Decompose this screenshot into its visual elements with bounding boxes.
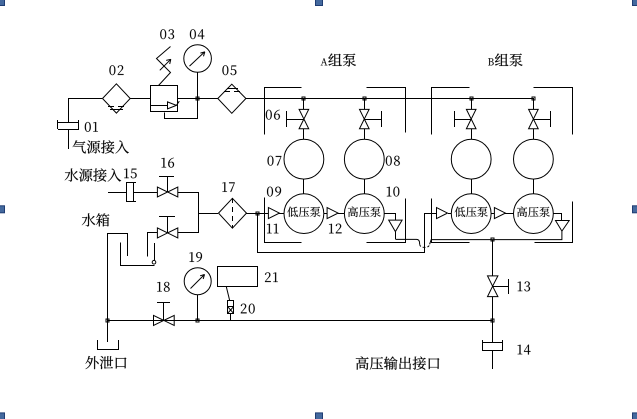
pump circle B2: [514, 194, 554, 234]
group A enclosure bracket bottom-left: [265, 198, 302, 243]
group A enclosure bracket bottom-right: [367, 199, 406, 243]
pressure regulator 03: [150, 47, 179, 112]
external drain port symbol: [98, 340, 119, 350]
group B enclosure bracket top-left: [432, 88, 470, 135]
output valve 13 (bowtie): [488, 276, 509, 297]
label external drain port: [86, 356, 127, 369]
pressure gauge 04: [184, 45, 212, 98]
outlet check valve B (down): [556, 221, 570, 232]
wire valve to air drive B1: [471, 129, 473, 139]
label water tank: [82, 213, 110, 226]
water tank (open top): [121, 243, 155, 266]
pump name text A1: [287, 207, 320, 217]
wire down to outlet check valve A: [395, 213, 397, 220]
regulator feedback pilot line: [165, 99, 198, 119]
water supply distribution line: [257, 252, 424, 254]
shutoff valve (bowtie) branch B1: [454, 109, 476, 128]
wire valve to air drive B2: [533, 129, 535, 139]
label pump group A: [321, 53, 356, 66]
wire down to outlet check valve B: [561, 213, 563, 220]
wire 21 to restrictor 20: [226, 286, 230, 300]
wire tank valve to riser: [178, 232, 198, 234]
wire header down to valve 13: [492, 240, 494, 276]
wire air line to filter 02: [68, 98, 102, 100]
group B supply riser: [424, 213, 426, 253]
selection handle middle-left: [0, 206, 5, 213]
group B enclosure bracket top-right: [534, 88, 573, 135]
label 21: [265, 272, 278, 282]
label 10: [387, 187, 400, 197]
header after hop: [430, 231, 562, 244]
shutoff valve (bowtie) branch A2: [360, 109, 382, 128]
wire check valve to pump B2: [505, 213, 514, 215]
water inlet valve 16 (bowtie): [157, 176, 177, 197]
label 19: [189, 252, 202, 262]
wire 01 to air line: [68, 98, 70, 122]
air drive motor circle B2: [514, 139, 554, 179]
junction dot air line branch A2: [363, 97, 366, 100]
selection handle top-middle: [316, 0, 323, 6]
junction dot regulator outlet: [196, 97, 199, 100]
pump circle B1: [451, 194, 491, 234]
junction dot drain port: [106, 319, 109, 322]
label pump group B: [488, 53, 522, 66]
tank suction pipe: [148, 233, 158, 257]
label 03: [160, 29, 174, 39]
label 09: [267, 187, 281, 197]
water inlet connector 15: [126, 182, 136, 202]
wire 20 to drain line: [230, 313, 232, 320]
shutoff valve (bowtie) branch B2: [529, 109, 551, 128]
pump circle A2: [344, 194, 384, 234]
wire 02 to regulator 03: [130, 98, 150, 100]
wire down to shutoff valve B2: [533, 98, 535, 109]
wire air drive to pump B2: [533, 179, 535, 194]
air lubricator 05: [218, 84, 246, 113]
label air source inlet: [73, 140, 129, 153]
check valve 12 (A interstage): [327, 208, 338, 219]
wire stub below 01: [68, 129, 70, 149]
label 16: [161, 158, 174, 168]
tank level indicator circle: [152, 260, 156, 264]
wire air drive to pump A1: [303, 179, 305, 194]
wire pump A1 to check valve 12: [324, 213, 327, 215]
wire water inlet: [108, 192, 126, 194]
label 02: [109, 65, 123, 75]
wire air drive to pump B1: [471, 179, 473, 194]
label 17: [222, 182, 234, 192]
label 14: [518, 345, 531, 355]
junction dot header to valve 13: [491, 238, 494, 241]
group B enclosure bracket bottom-left: [432, 199, 470, 243]
wire check valve to pump A2: [338, 213, 344, 215]
label high pressure output port: [356, 356, 440, 369]
drain port stub: [107, 320, 109, 342]
wire 15 to valve 16: [133, 192, 157, 194]
selection handle bottom-left: [0, 413, 5, 419]
air inlet connector 01: [58, 120, 80, 130]
header hop over riser (dashed arc): [420, 244, 430, 247]
wire pump A2 outlet: [384, 213, 395, 215]
wire pump B1 to interstage check valve: [491, 213, 494, 215]
junction dot water supply: [256, 212, 259, 215]
check valve B1 inlet: [437, 208, 448, 219]
wire into pump B1: [448, 213, 451, 215]
selection handle bottom-middle: [316, 413, 323, 419]
shutoff valve (bowtie) branch A1: [287, 109, 309, 128]
water filter 17: [219, 198, 247, 228]
junction dot output port: [491, 319, 494, 322]
label 20: [241, 304, 255, 314]
wire down to shutoff valve A2: [364, 98, 366, 109]
selection handle top-right: [633, 0, 637, 6]
label 15: [124, 169, 136, 179]
label 06: [266, 110, 280, 120]
water supply drop line: [257, 213, 259, 253]
wire valve 13 to drain junction: [492, 297, 494, 320]
wire valve to air drive A1: [303, 129, 305, 139]
pressure switch box 21: [218, 267, 258, 287]
wire 17 to junction: [246, 213, 268, 215]
group A enclosure bracket top-left: [265, 88, 302, 135]
wire down to shutoff valve A1: [303, 98, 305, 109]
air drive motor circle A1: [284, 139, 324, 179]
high pressure header A section: [395, 239, 419, 244]
selection handle bottom-right: [633, 413, 637, 419]
wire 03 to lubricator 05: [178, 98, 218, 100]
label 05: [222, 65, 236, 75]
label 08: [386, 156, 400, 166]
air drive motor circle B1: [451, 139, 491, 179]
pump name text A2: [348, 207, 381, 217]
wire pump B2 outlet: [553, 213, 562, 215]
group B enclosure bracket bottom-right: [535, 202, 573, 243]
output connector 14: [482, 320, 503, 369]
junction dot air line branch A1: [302, 97, 305, 100]
main air supply line: [246, 98, 534, 100]
pump name text B2: [517, 207, 550, 217]
wire air drive to pump A2: [364, 179, 366, 194]
check valve B interstage: [494, 208, 505, 219]
group A enclosure bracket top-right: [367, 88, 406, 133]
air filter 02: [103, 84, 131, 113]
wire check valve A to header: [395, 232, 397, 239]
check valve 09 (A1 inlet): [268, 208, 279, 219]
junction dot gauge 19: [196, 319, 199, 322]
water inlet label: [65, 168, 121, 181]
selection handle middle-right: [633, 206, 637, 213]
wire 16 to riser: [178, 192, 198, 194]
restrictor 20: [228, 301, 234, 314]
label 18: [157, 282, 169, 292]
wire down to shutoff valve B1: [471, 98, 473, 109]
drain valve 18 (bowtie): [154, 303, 175, 326]
wire riser to filter 17: [198, 213, 218, 215]
air drive motor circle A2: [344, 139, 384, 179]
label 07: [268, 156, 282, 166]
junction dot air line branch B2: [532, 97, 535, 100]
label 01: [85, 122, 98, 132]
label 04: [190, 29, 204, 39]
label 12: [329, 224, 342, 234]
label 13: [518, 281, 530, 291]
pressure gauge 19: [184, 268, 211, 320]
tank return pipe from drain line: [108, 233, 128, 320]
tank outlet valve (bowtie): [157, 217, 177, 238]
selection handle top-left: [0, 0, 5, 6]
outlet check valve A (down): [389, 220, 402, 232]
wire riser to check valve B1: [425, 213, 436, 215]
drain line: [108, 320, 493, 322]
wire into pump A1: [279, 213, 284, 215]
pump circle A1: [284, 194, 324, 234]
label 11: [267, 224, 279, 234]
wire valve to air drive A2: [364, 129, 366, 139]
riser to filter level: [198, 192, 200, 233]
junction dot air line branch B1: [470, 97, 473, 100]
pump name text B1: [455, 207, 488, 217]
